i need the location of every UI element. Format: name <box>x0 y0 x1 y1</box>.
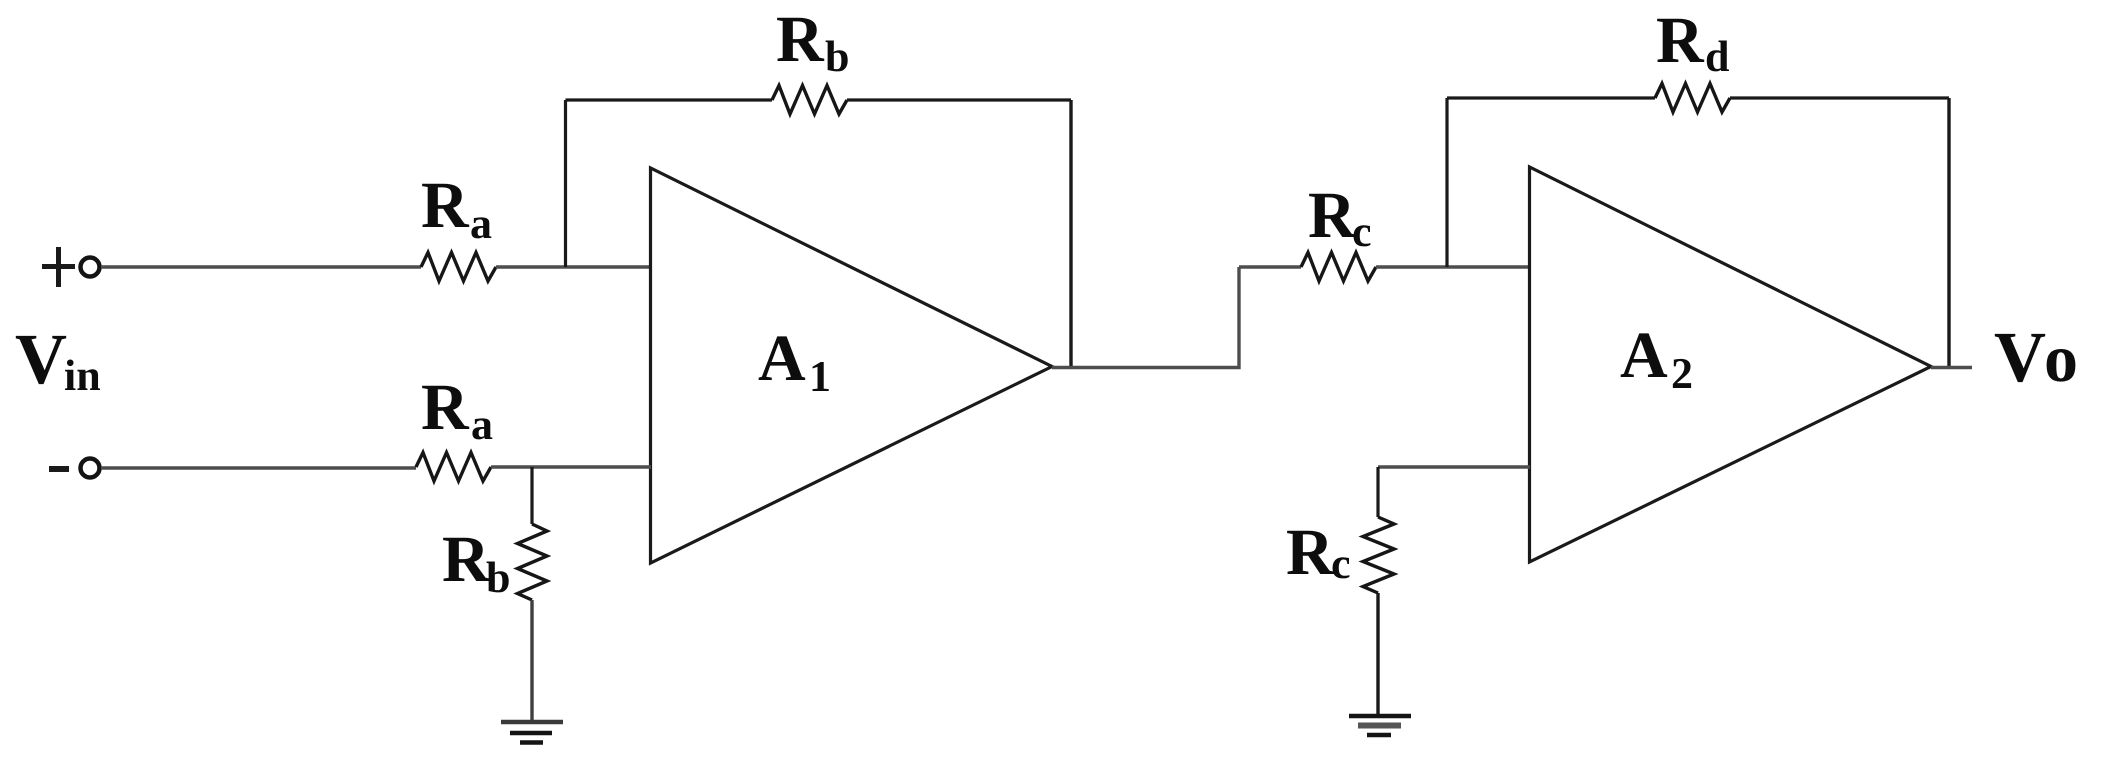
wire: into Rc <box>1239 265 1301 268</box>
ground (right) <box>1349 716 1411 735</box>
wire: vertical node to Rd feedback (top) <box>1445 98 1448 267</box>
wire: node down to shunt Rb <box>530 467 533 524</box>
svg-text:a: a <box>470 199 492 248</box>
wire: feedback down to A1 output <box>1069 100 1072 368</box>
svg-text:R: R <box>442 523 491 596</box>
wire: top feedback left segment (Rd) <box>1447 96 1655 99</box>
ground (left) <box>501 722 563 743</box>
svg-text:R: R <box>421 371 470 444</box>
svg-text:d: d <box>1705 32 1729 81</box>
plus terminal sign <box>42 247 75 287</box>
wire: Rc to A2 noninverting input, node at x=1447 <box>1376 265 1530 268</box>
svg-text:b: b <box>486 553 510 602</box>
wire: Ra to A1 inverting input, node at x=532 <box>491 465 651 468</box>
resistor Rb (shunt to ground) <box>518 524 548 600</box>
resistor Rc (series) <box>1301 253 1376 282</box>
wire: minus terminal to Ra (bottom) <box>101 466 416 469</box>
wire: A2 output stub <box>1931 366 1972 369</box>
svg-text:b: b <box>825 32 849 81</box>
plus terminal circle <box>81 258 100 277</box>
svg-text:R: R <box>1286 516 1335 589</box>
svg-text:1: 1 <box>809 352 831 401</box>
svg-text:A: A <box>758 322 806 395</box>
wire: A1 output run <box>1052 366 1241 369</box>
svg-text:R: R <box>421 169 470 242</box>
wire: node down to shunt Rc <box>1376 467 1379 517</box>
minus terminal circle <box>81 459 100 478</box>
svg-text:A: A <box>1620 319 1668 392</box>
resistor Rd (feedback) <box>1655 84 1730 113</box>
svg-text:a: a <box>471 400 493 449</box>
op-amp A1 <box>651 168 1053 563</box>
wire: Ra to A1 noninverting input, node at x=565 <box>496 265 651 268</box>
wire: Rc to ground <box>1376 593 1379 716</box>
svg-text:V: V <box>1994 317 2046 397</box>
resistor Ra (bottom input) <box>416 453 491 482</box>
svg-text:in: in <box>64 351 101 400</box>
wire: top feedback right segment <box>847 98 1071 101</box>
resistor Ra (top input) <box>421 253 496 282</box>
svg-text:R: R <box>776 3 825 76</box>
wire: plus terminal to Ra (top) <box>101 265 421 268</box>
wire: Rb to ground <box>530 600 533 722</box>
wire: feedback down to A2 output <box>1947 98 1950 368</box>
minus terminal sign <box>49 466 69 472</box>
op-amp A2 <box>1530 167 1932 562</box>
svg-text:R: R <box>1308 179 1357 252</box>
wire: A2 inverting input <box>1378 465 1530 468</box>
wire: step up between stages <box>1237 267 1240 369</box>
resistor Rb (feedback) <box>772 86 847 115</box>
svg-text:o: o <box>2044 320 2078 396</box>
svg-text:R: R <box>1656 4 1705 77</box>
resistor Rc (shunt to ground) <box>1363 517 1394 593</box>
svg-text:2: 2 <box>1671 349 1693 398</box>
wire: top feedback left segment <box>566 98 773 101</box>
wire: top feedback right segment (Rd) <box>1730 96 1949 99</box>
svg-text:c: c <box>1331 539 1351 588</box>
svg-text:c: c <box>1352 207 1372 256</box>
svg-text:V: V <box>15 319 67 399</box>
wire: vertical node to Rb feedback (top) <box>564 100 567 267</box>
